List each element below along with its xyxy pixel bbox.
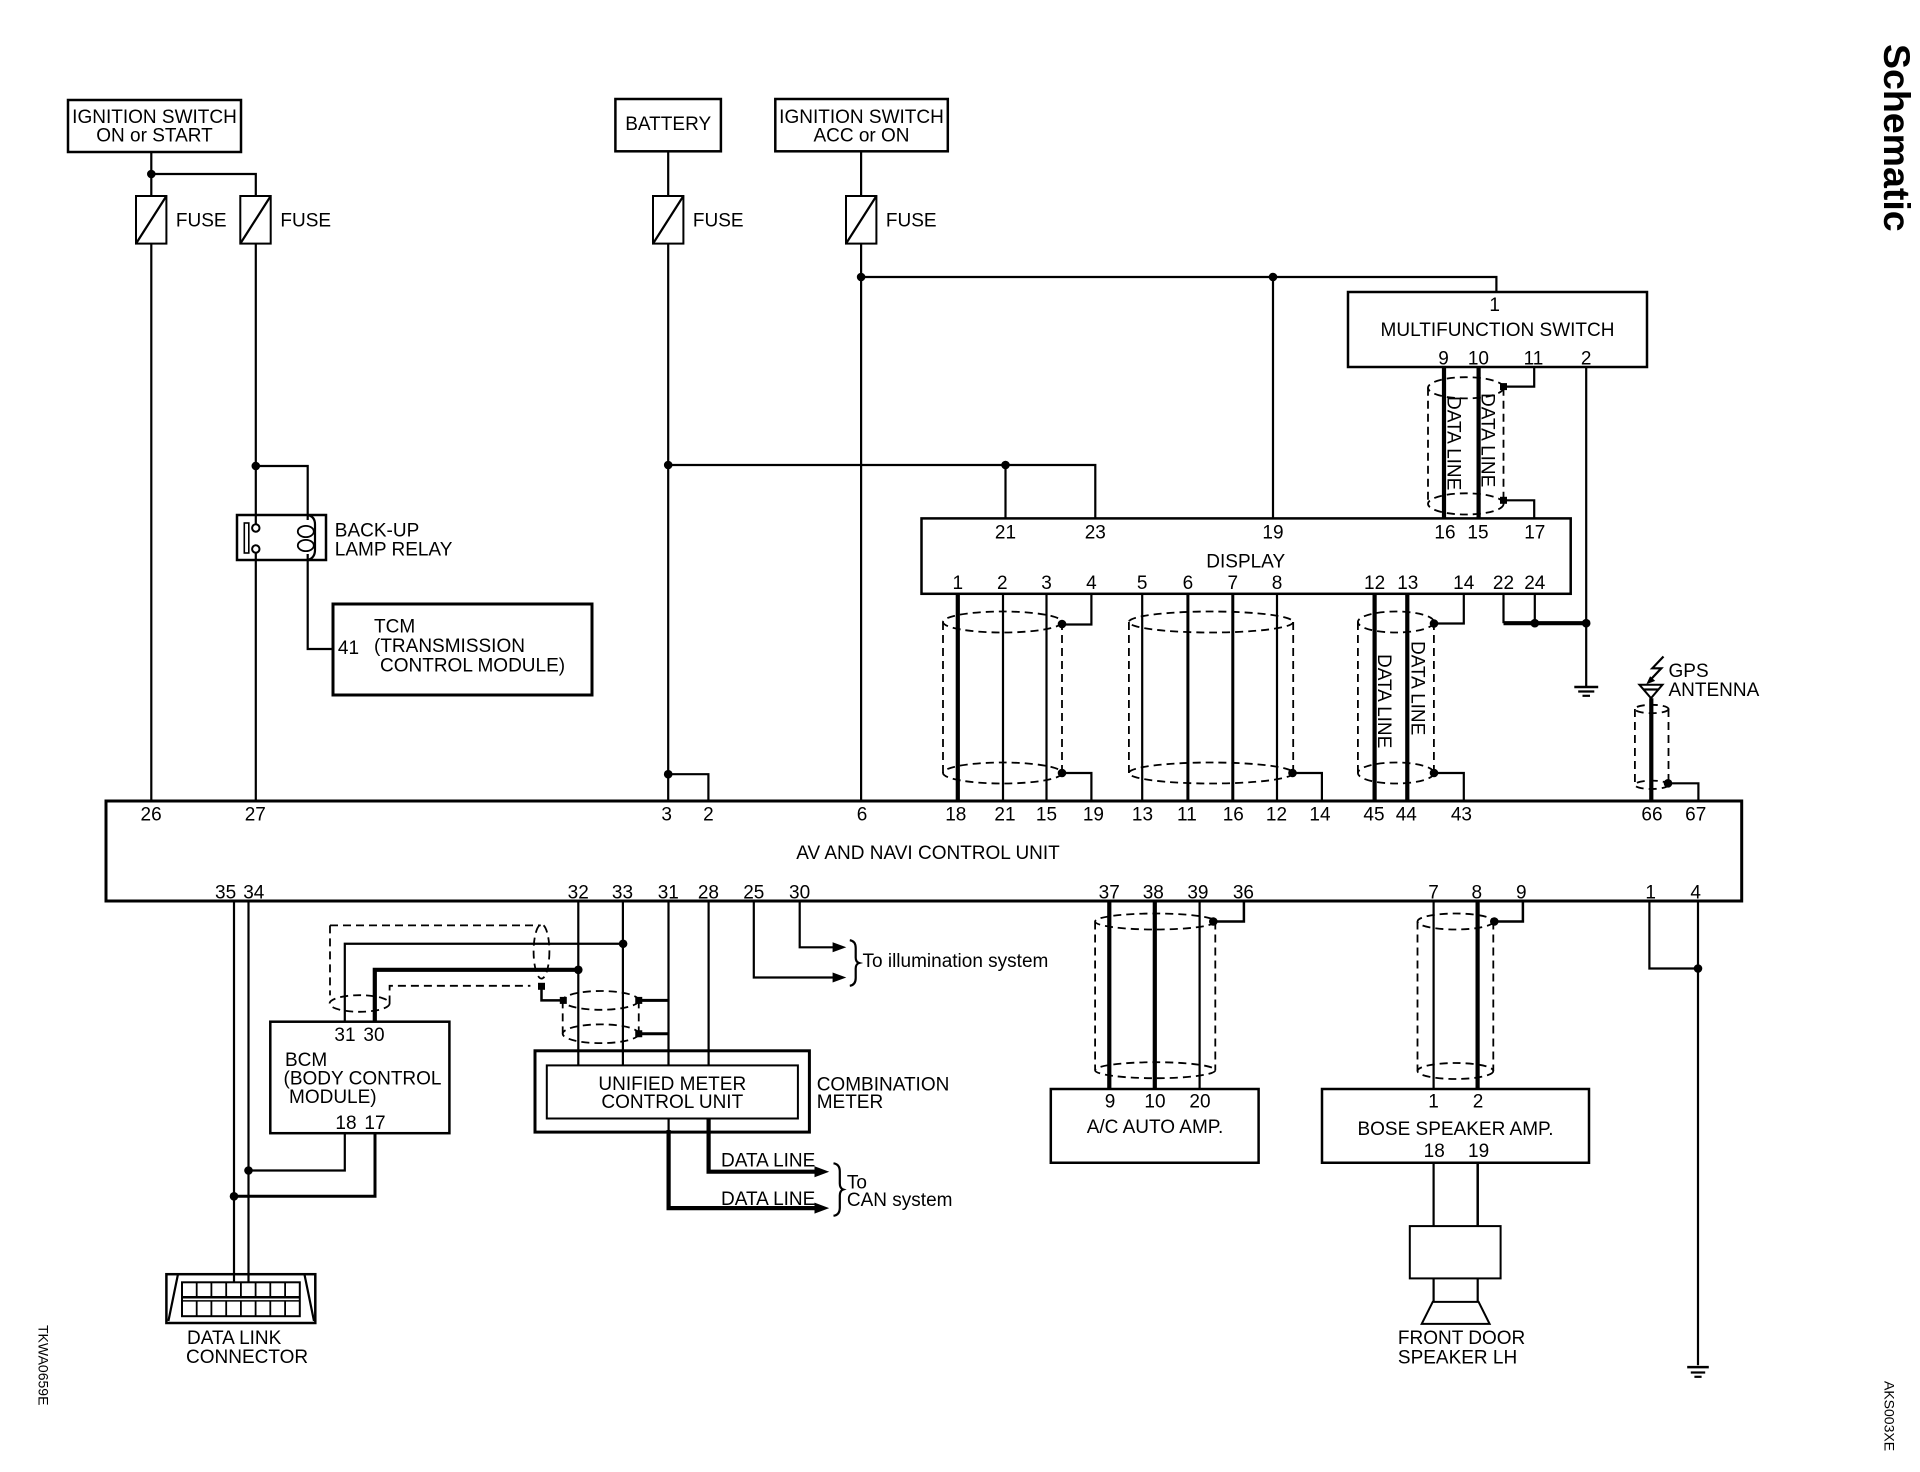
svg-text:34: 34 [243,883,265,904]
wire: AV pin 36 to A/C shield [1213,901,1244,922]
TCM (TRANSMISSION CONTROL MODULE) [333,604,592,695]
junction on branch at display pin 21 [1001,461,1010,470]
svg-text:2: 2 [997,573,1008,594]
svg-text:31: 31 [334,1025,355,1046]
shielded cable GPS [1635,705,1669,789]
svg-text:20: 20 [1189,1092,1210,1113]
svg-text:11: 11 [1524,349,1544,370]
shielded cable D (BCM pair, drawn sideways) [330,924,550,1011]
wire: MFS pin 9 data line to DISPLAY pin 16 [1442,367,1446,518]
wire: shield B bottom to AV pin 14 [1293,773,1322,801]
wire: DISPLAY pin 7 to AV pin 16 [1231,594,1234,801]
svg-text:36: 36 [1233,883,1254,904]
svg-text:ANTENNA: ANTENNA [1669,680,1760,701]
wire: AV pin 30 to illumination [800,901,833,947]
wire: AV pin 39 to A/C amp pin 20 [1198,901,1200,1089]
svg-text:FUSE: FUSE [693,211,744,232]
junction battery to AV pin 2 [664,770,673,779]
wire: shield C top to DISPLAY pin 14 [1434,594,1464,624]
wire: DISPLAY pin 1 to AV pin 18 (shielded, thick) [956,594,960,801]
svg-text:ACC or ON: ACC or ON [813,126,909,147]
shielded cable around MFS data lines [1428,377,1504,514]
svg-text:17: 17 [364,1113,385,1134]
svg-text:DATA LINE: DATA LINE [721,1151,815,1172]
svg-text:18: 18 [335,1113,356,1134]
fuse F4 [846,196,937,244]
svg-text:1: 1 [1489,295,1500,316]
junction shield C bottom [1430,769,1439,778]
svg-text:12: 12 [1266,804,1287,825]
junction ACC branch [857,273,866,282]
arrow illumination lower [833,973,847,983]
svg-text:9: 9 [1516,883,1527,904]
svg-text:19: 19 [1262,523,1283,544]
svg-text:DATA LINE: DATA LINE [1477,393,1498,487]
svg-text:TCM: TCM [374,617,415,638]
shielded cable B (display pins 5-8) [1129,612,1293,784]
junction ignition branch [147,170,156,179]
wire: relay coil to TCM pin 41 [308,554,333,649]
junction MFS pin 2 wire on ground bus [1582,619,1591,628]
wire: AV pin 7 to Bose amp pin 1 [1432,901,1434,1089]
svg-text:15: 15 [1467,523,1488,544]
svg-text:CONTROL MODULE): CONTROL MODULE) [380,656,565,677]
wire: AV pin 28 to unified meter control unit [707,901,709,1065]
svg-text:66: 66 [1641,804,1662,825]
svg-text:(TRANSMISSION: (TRANSMISSION [374,636,525,657]
junction shield A bottom [1058,769,1067,778]
junction ACC branch to DISPLAY pin 19 [1269,273,1278,282]
UNIFIED METER CONTROL UNIT [547,1065,798,1118]
svg-text:2: 2 [1473,1092,1484,1113]
junction shield A top [1058,620,1067,629]
shielded cable A (display pins 1-3) [943,612,1062,784]
wire: DISPLAY pin 4 to shield A top [1062,594,1091,625]
svg-text:MODULE): MODULE) [289,1087,377,1108]
svg-text:To illumination system: To illumination system [863,951,1049,972]
svg-text:44: 44 [1396,804,1418,825]
svg-text:45: 45 [1363,804,1384,825]
svg-text:FRONT DOOR: FRONT DOOR [1398,1328,1525,1349]
wire: DISPLAY pin 3 to AV pin 15 [1045,594,1047,801]
svg-text:SPEAKER LH: SPEAKER LH [1398,1348,1517,1369]
svg-text:28: 28 [698,883,719,904]
COMBINATION METER outer box [535,1051,809,1132]
svg-text:35: 35 [215,883,236,904]
svg-text:38: 38 [1143,883,1164,904]
wire: shield D drain to shield E [542,986,564,1000]
svg-text:1: 1 [1428,1092,1439,1113]
svg-text:10: 10 [1144,1092,1165,1113]
junction shield E bottom right [635,1030,642,1037]
svg-text:21: 21 [995,523,1016,544]
svg-text:DATA LINK: DATA LINK [187,1328,282,1349]
wire: MFS pin 2 to ground [1585,367,1587,686]
wire: shield A bottom to AV pin 19 [1062,773,1091,801]
wire: Bose amp pin 19 to speaker [1476,1163,1479,1226]
svg-text:CONTROL UNIT: CONTROL UNIT [601,1092,743,1113]
svg-text:12: 12 [1364,573,1385,594]
svg-text:8: 8 [1272,573,1283,594]
wire: shield bottom to DISPLAY pin 17 [1504,500,1535,518]
svg-text:32: 32 [568,883,589,904]
svg-text:6: 6 [1183,573,1194,594]
wire: AV pin 38 to A/C amp pin 10 (thick) [1153,901,1157,1089]
wire: GPS shield to AV pin 67 [1668,783,1698,801]
wire: DISPLAY pin 5 to AV pin 13 [1141,594,1143,801]
wire: AV pin 37 to A/C amp pin 9 (thick) [1107,901,1111,1089]
svg-text:14: 14 [1309,804,1331,825]
wire: ACC to fuse 4 [860,151,862,196]
shielded cable C (display data lines) [1358,612,1434,784]
svg-text:16: 16 [1434,523,1455,544]
svg-text:BATTERY: BATTERY [625,114,711,135]
power source: IGNITION SWITCH ON or START [68,100,241,152]
junction shield D drain [538,983,545,990]
svg-text:DATA LINE: DATA LINE [1407,641,1428,735]
A/C AUTO AMP [1051,1089,1259,1163]
brace To illumination system [850,940,859,986]
svg-text:DATA LINE: DATA LINE [1373,654,1394,748]
wire: AV pin 1 to ground wire [1649,901,1698,969]
svg-text:24: 24 [1524,573,1546,594]
svg-text:Schematic: Schematic [1876,44,1918,232]
svg-text:1: 1 [1645,883,1656,904]
svg-text:CAN system: CAN system [847,1190,953,1211]
svg-text:11: 11 [1177,804,1197,825]
junction shield top [1500,383,1507,390]
junction relay coil branch [252,462,261,471]
wire: AV pin 4 to ground [1697,901,1699,1365]
svg-text:2: 2 [1581,349,1592,370]
wire: AV pin 33 to unified meter control unit [622,901,624,1065]
svg-text:4: 4 [1086,573,1097,594]
wire: DISPLAY pin 12 data line to AV pin 45 [1372,594,1376,801]
svg-text:25: 25 [743,883,764,904]
BOSE SPEAKER AMP [1322,1089,1589,1163]
arrow illumination upper [833,942,847,952]
wire: fuse 2 through relay contact to AV pin 27 [255,244,257,801]
wire: branch to fuse 2 [151,174,256,196]
svg-text:AV AND NAVI CONTROL UNIT: AV AND NAVI CONTROL UNIT [796,843,1060,864]
svg-text:30: 30 [789,883,810,904]
svg-text:19: 19 [1083,804,1104,825]
svg-text:43: 43 [1451,804,1472,825]
svg-text:39: 39 [1187,883,1208,904]
svg-text:18: 18 [1424,1141,1445,1162]
relay: BACK-UP LAMP RELAY [237,515,453,561]
wire: fuse 4 to AV pin 6 [860,244,862,801]
svg-text:DATA LINE: DATA LINE [721,1189,815,1210]
svg-text:22: 22 [1493,573,1514,594]
fuse F2 [240,196,331,244]
junction shield C top [1430,619,1439,628]
svg-text:DATA LINE: DATA LINE [1443,396,1464,490]
svg-text:67: 67 [1685,804,1706,825]
svg-text:3: 3 [661,804,672,825]
DATA LINK CONNECTOR [166,1274,315,1368]
wire: UMCU data line lower to CAN [667,1119,669,1133]
junction shield bottom [1500,497,1507,504]
junction pins 1/4 [1694,964,1703,973]
svg-text:A/C AUTO AMP.: A/C AUTO AMP. [1087,1117,1224,1138]
wire: BCM pin 30 to AV pin 32 (thick) [375,970,579,1022]
svg-text:1: 1 [953,573,964,594]
wire: AV pin 25 to illumination [754,901,833,978]
brace To CAN system [834,1163,844,1216]
BCM (BODY CONTROL MODULE) [270,1022,449,1134]
shielded cable F (A/C amp) [1095,914,1215,1079]
MULTIFUNCTION SWITCH U1 [1348,292,1647,370]
wire: branch down to DISPLAY pin 19 [1272,277,1274,518]
wire: UMCU data line upper to CAN [709,1119,815,1172]
svg-text:ON or START: ON or START [96,126,213,147]
svg-text:9: 9 [1438,349,1449,370]
svg-text:13: 13 [1397,573,1418,594]
junction BCM 18 tap [244,1166,253,1175]
wire: DISPLAY pin 13 data line to AV pin 44 [1405,594,1409,801]
svg-text:21: 21 [994,804,1015,825]
svg-text:FUSE: FUSE [280,211,331,232]
wire: BCM pin 18 to AV pin 34 wire [249,1133,345,1170]
power source: IGNITION SWITCH ACC or ON [775,99,948,151]
wire: DISPLAY pin 6 to AV pin 11 [1186,594,1189,801]
arrow CAN lower [815,1203,830,1214]
wire: DISPLAY pin 2 to AV pin 21 [1002,594,1004,801]
svg-text:TKWA0659E: TKWA0659E [36,1325,52,1405]
svg-text:18: 18 [945,804,966,825]
svg-text:AKS003XE: AKS003XE [1882,1381,1898,1451]
svg-text:30: 30 [363,1025,384,1046]
wire: GPS antenna coax to AV pin 66 [1649,698,1653,801]
svg-text:FUSE: FUSE [886,211,937,232]
ground G2 [1687,1367,1709,1377]
svg-text:37: 37 [1099,883,1120,904]
wire: ACC branch to MULTIFUNCTION SWITCH pin 1 [861,277,1496,292]
svg-text:26: 26 [141,804,162,825]
wire: battery branch to DISPLAY pins 21 and 23 [668,465,1095,518]
junction A/C shield [1209,917,1218,926]
svg-text:41: 41 [338,638,359,659]
svg-text:19: 19 [1468,1141,1489,1162]
junction shield E top left [560,997,567,1004]
svg-text:METER: METER [817,1092,884,1113]
DISPLAY unit [922,518,1571,594]
svg-text:7: 7 [1428,883,1439,904]
wire: thick ground bus pins 22/24 [1504,621,1587,625]
wire: BCM pin 31 to AV pin 33 [345,944,623,1022]
wire: AV pin 31 to unified meter control unit [667,901,669,1065]
svg-text:16: 16 [1223,804,1244,825]
junction battery display branch [664,461,673,470]
FRONT DOOR SPEAKER LH [1398,1226,1525,1368]
svg-text:27: 27 [245,804,266,825]
svg-text:9: 9 [1105,1092,1116,1113]
wire: DISPLAY pin 24 to ground bus [1534,594,1536,623]
svg-text:3: 3 [1041,573,1052,594]
AV AND NAVI CONTROL UNIT [106,801,1742,904]
junction pin 24 on ground bus [1531,619,1540,628]
svg-text:31: 31 [658,883,679,904]
wire: BCM pin 17 to AV pin 35 wire [234,1133,375,1196]
svg-text:4: 4 [1690,883,1701,904]
svg-text:LAMP RELAY: LAMP RELAY [335,540,453,561]
svg-text:CONNECTOR: CONNECTOR [186,1347,308,1368]
junction BCM 17 tap [230,1192,239,1201]
svg-text:BACK-UP: BACK-UP [335,521,419,542]
svg-text:6: 6 [857,804,868,825]
svg-text:8: 8 [1472,883,1483,904]
power source: BATTERY [615,99,721,151]
svg-text:14: 14 [1453,573,1475,594]
shielded cable G (Bose amp) [1418,914,1494,1080]
svg-text:BOSE SPEAKER AMP.: BOSE SPEAKER AMP. [1357,1119,1553,1140]
svg-text:7: 7 [1228,573,1239,594]
wire: shield E bottom to AV pin 31 wire [639,1032,669,1035]
wire: fuse 1 to AV pin 26 [150,244,152,801]
wire: branch to relay coil [256,466,308,520]
wire: fuse 3 to AV pin 3 [667,244,669,801]
svg-text:17: 17 [1524,523,1545,544]
GPS ANTENNA [1639,657,1759,701]
junction shield B bottom [1288,769,1297,778]
wire: AV pin 34 to data link connector [247,901,249,1282]
arrow CAN upper [815,1166,830,1177]
svg-text:33: 33 [612,883,633,904]
junction shield E top right [635,997,642,1004]
svg-text:13: 13 [1132,804,1153,825]
wire: AV pin 9 to Bose shield [1494,901,1523,922]
junction Bose shield [1490,917,1499,926]
junction GPS shield [1664,779,1673,788]
junction on AV pin 32 wire [574,966,583,975]
shielded cable E (vertical, meter wires) [563,991,639,1043]
svg-text:2: 2 [703,804,714,825]
wire: MFS pin 11 to shield top [1504,367,1535,387]
wire: shield E top to AV pin 31 wire [639,999,669,1002]
wire: DISPLAY pin 8 to AV pin 12 [1276,594,1278,801]
wire: ignition switch to fuse 1 [150,152,152,196]
ground G1 [1574,687,1598,696]
svg-text:10: 10 [1468,349,1489,370]
wire: battery to fuse 3 [667,151,669,196]
svg-text:15: 15 [1036,804,1057,825]
svg-text:MULTIFUNCTION SWITCH: MULTIFUNCTION SWITCH [1381,320,1615,341]
wire: AV pin 35 to data link connector [233,901,235,1282]
wire: Bose amp pin 18 to speaker [1432,1163,1434,1226]
svg-text:5: 5 [1137,573,1148,594]
wire: AV pin 32 to unified meter control unit [577,901,579,1065]
wire: MFS pin 10 data line to DISPLAY pin 15 [1476,367,1480,518]
fuse F1 [136,196,227,244]
svg-text:DISPLAY: DISPLAY [1206,551,1285,572]
fuse F3 [653,196,744,244]
wire: shield C bottom to AV pin 43 [1434,773,1464,801]
svg-text:FUSE: FUSE [176,211,227,232]
svg-text:23: 23 [1085,523,1106,544]
wire: jog to AV pin 2 [668,774,708,801]
junction on AV pin 33 wire [619,939,628,948]
wire: AV pin 8 to Bose amp pin 2 (thick) [1475,901,1479,1089]
wire: DISPLAY pin 22 ground link [1502,594,1504,623]
